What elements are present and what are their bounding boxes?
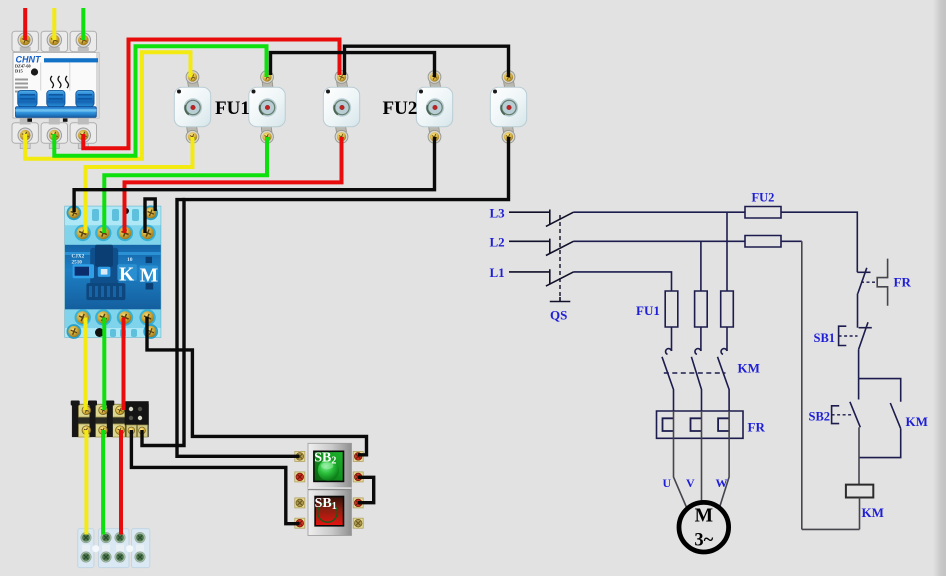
wire red FR to XT strip: [119, 430, 123, 535]
fuse FU2-2: [745, 236, 781, 248]
wire black link fuse3 top to fuse5 top: [345, 46, 509, 77]
thermal relay FR heater box: [657, 411, 744, 438]
svg-text:10: 10: [127, 257, 133, 263]
wire red QF-out to FU1 fuse3 top: [83, 40, 339, 149]
wire black jumper KM terminal4 to coil corner screw: [145, 199, 155, 233]
svg-text:3~: 3~: [694, 531, 713, 551]
wire yellow FU1 fuse1 to KM L1: [86, 137, 193, 233]
fuse holder FU1 fuse 1: [174, 71, 210, 144]
circuit breaker QF (CHNT DZ47-60 3P): [12, 31, 99, 148]
QS switch blade L3: [546, 212, 574, 226]
SB2 actuator bracket: [832, 406, 840, 424]
fuse FU1-2: [695, 291, 708, 327]
wire fuse3 to KM contact3: [726, 327, 728, 351]
contactor KM main contact 1: [666, 349, 672, 355]
svg-text:KM: KM: [906, 414, 928, 429]
SB2 actuator dashes: [832, 414, 852, 416]
wire red KM to FR: [122, 318, 126, 411]
wire L2 to FU2: [574, 240, 745, 242]
SB1 actuator dashes: [839, 335, 858, 337]
KM aux lower wire: [859, 429, 901, 458]
contactor KM (CJX2-2510): [65, 205, 161, 338]
control rail FR to SB1: [857, 294, 859, 328]
wire black branch to SB2 left terminal: [177, 200, 300, 457]
terminal strip XT: [78, 529, 150, 568]
wire fuse2 to KM contact2: [700, 327, 702, 351]
KM linkage dashed: [664, 372, 726, 374]
node L3 lead: [509, 210, 550, 225]
QS linkage dashed line: [559, 215, 561, 297]
left control rail: [801, 241, 803, 529]
FR actuator: [877, 259, 887, 306]
svg-text:FU1: FU1: [215, 98, 250, 119]
svg-text:FR: FR: [894, 275, 912, 290]
wire L2 drop to FU1 fuse2: [700, 241, 702, 291]
wire L3 to FU2: [574, 211, 745, 213]
node L2 lead: [509, 239, 550, 254]
contactor KM main contact 2: [695, 349, 701, 355]
rail SB1 to node: [858, 349, 860, 378]
svg-text:U: U: [663, 476, 672, 490]
wire green supply into QF pole1 top: [81, 8, 85, 40]
fuse holder FU1 fuse 2: [249, 71, 285, 144]
FR heater element 1: [663, 418, 674, 431]
wire black KM T4-out to SB2 right terminal: [147, 317, 367, 455]
wire yellow QF-out to FU1 fuse1 top: [25, 52, 190, 158]
wire red supply into QF pole3 top: [23, 8, 27, 40]
SB2 upper wire: [858, 379, 860, 400]
svg-text:L1: L1: [490, 265, 505, 280]
svg-text:SB2: SB2: [809, 410, 831, 424]
FR phase wire 3 through box: [728, 411, 730, 438]
svg-text:D15: D15: [15, 69, 23, 74]
wire green FR to XT strip: [101, 430, 105, 535]
wire W to motor: [720, 438, 730, 507]
SB2 NO blade: [850, 402, 860, 428]
wire red FU1 fuse3 to KM L3: [125, 137, 342, 233]
wire coil to bottom rail: [859, 498, 861, 530]
fuse holder FU2 fuse 2: [490, 71, 526, 144]
fuse holder FU1 fuse 3: [323, 71, 359, 144]
QS linkage bar: [550, 297, 571, 302]
wire black fuse5 bottom to FR contact via long run: [142, 137, 509, 446]
wire L3 drop to FU1 fuse3: [726, 212, 728, 291]
thermal overload relay FR: [71, 401, 149, 438]
KM aux NO blade: [890, 403, 900, 429]
FR phase wire 1 through box: [673, 411, 675, 438]
node L1 lead: [509, 269, 550, 284]
svg-text:M: M: [695, 506, 713, 527]
QS switch blade L1: [546, 272, 574, 286]
svg-text:FU1: FU1: [636, 303, 660, 318]
wire green FU1 fuse2 to KM L2: [104, 137, 267, 233]
wire fuse1 to KM contact1: [671, 327, 673, 351]
FR heater element 2: [691, 418, 702, 431]
FR actuator dashes: [861, 281, 877, 283]
fuse FU1-3: [721, 291, 734, 327]
wire U to motor: [674, 438, 688, 508]
wire FU2-2 to left control rail: [781, 240, 802, 242]
bottom rail: [802, 528, 860, 530]
contactor coil KM: [846, 485, 873, 498]
push button station SB2/SB1: [295, 443, 363, 535]
wire V to motor: [701, 438, 703, 501]
SB1 actuator bracket: [839, 326, 847, 345]
svg-text:K: K: [119, 265, 135, 286]
FR NC contact tick: [857, 271, 870, 273]
SB1 contact blade: [859, 322, 868, 349]
svg-text:V: V: [686, 476, 695, 490]
QS switch blade L2: [546, 241, 574, 255]
wire black jumper SB2-right-bottom to SB1-right-top: [358, 477, 374, 502]
svg-text:QS: QS: [550, 308, 567, 323]
rail SB2 to coil: [858, 427, 860, 484]
FR phase wire 2 through box: [701, 411, 703, 438]
wire green KM to FR: [102, 318, 106, 411]
wire black FR aux to SB1 left-bottom terminal: [131, 430, 299, 524]
wire black link fuse2 top to fuse4 top: [271, 53, 435, 77]
wire yellow FR to XT strip: [84, 430, 88, 535]
FR heater element 3: [718, 418, 729, 431]
svg-text:KM: KM: [862, 505, 884, 520]
contactor KM main contact 3: [721, 349, 727, 355]
fuse FU1-1: [665, 291, 678, 327]
svg-text:FU2: FU2: [752, 191, 775, 205]
wire black fuse4 bottom to KM coil A-corner: [74, 137, 434, 212]
wire L1 to FU1 fuse1: [574, 272, 672, 291]
branch node to KM aux: [859, 379, 901, 402]
SB1 contact tick: [859, 327, 872, 329]
wire green QF-out to FU1 fuse2 top: [54, 46, 266, 156]
svg-text:SB1: SB1: [814, 331, 836, 345]
wire yellow supply into QF pole2 top: [52, 8, 56, 40]
svg-text:FR: FR: [748, 420, 766, 435]
wire yellow KM to FR: [84, 318, 88, 411]
fuse holder FU2 fuse 1: [416, 71, 452, 144]
wire FU2-1 to control rail: [781, 212, 857, 272]
fuse FU2-1: [745, 207, 781, 219]
svg-text:FU2: FU2: [383, 98, 418, 119]
svg-text:L2: L2: [490, 235, 505, 250]
svg-text:W: W: [716, 476, 728, 490]
FR NC contact blade: [858, 268, 867, 294]
svg-text:L3: L3: [490, 206, 506, 221]
svg-text:KM: KM: [738, 361, 760, 376]
motor M 3-phase: [679, 502, 729, 552]
